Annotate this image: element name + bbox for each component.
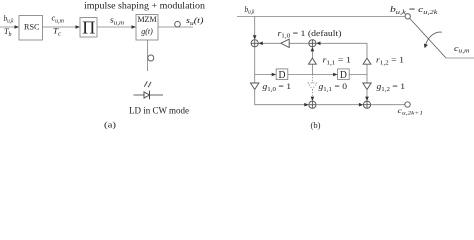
laser emission arrows: [144, 81, 147, 86]
arrowhead into MZM: [132, 25, 137, 29]
wire X4 to output node: [371, 104, 405, 106]
arrowhead into adder2 right: [316, 42, 321, 46]
box RSC: [19, 16, 43, 41]
wire top b line: [237, 16, 405, 18]
wire X1 down to register row: [254, 47, 256, 75]
svg-text:(a): (a): [104, 120, 116, 130]
wire g11 dotted into X3: [311, 90, 313, 99]
arrowhead into D1: [272, 73, 277, 77]
flipflop D2: [338, 69, 350, 80]
gain triangle r_1,0: [281, 39, 289, 47]
gain triangle g_1,2: [363, 83, 371, 90]
svg-text:impulse shaping + modulation: impulse shaping + modulation: [84, 1, 205, 11]
arrowhead into RSC: [15, 25, 20, 29]
adder X1: [251, 40, 258, 47]
wire r10 to X1: [260, 42, 281, 44]
arrowhead into adder4 top: [365, 97, 369, 102]
svg-text:LD in CW mode: LD in CW mode: [129, 107, 189, 117]
wire g10 tap down: [254, 75, 256, 84]
arrowhead into adder4 left: [359, 103, 364, 107]
wire r11 tap up: [311, 64, 313, 74]
svg-text:MZM: MZM: [137, 15, 156, 24]
wire input to RSC: [0, 26, 17, 28]
arrowhead into adder1 right: [258, 42, 263, 46]
node bottom right: [405, 102, 410, 107]
gain triangle r_1,2: [363, 58, 371, 64]
wire MZM bottom port: [147, 40, 149, 71]
svg-text:D: D: [279, 70, 286, 81]
connector circle bottom port: [148, 55, 154, 61]
box PI impulse shaper: [80, 18, 97, 38]
adder X4: [363, 101, 370, 108]
arrowhead into adder3 top: [311, 97, 315, 102]
wire g12 into X4: [366, 90, 368, 100]
connector circle output port: [175, 21, 181, 27]
gain triangle r_1,1: [309, 58, 317, 64]
wire switch arm diagonal: [410, 18, 446, 58]
wire switch output: [446, 57, 474, 59]
box MZM: [136, 15, 158, 41]
wire input drop to adder1: [254, 17, 256, 38]
svg-text:RSC: RSC: [24, 22, 40, 32]
arrowhead into D2: [333, 73, 338, 77]
wire to D1: [255, 74, 274, 76]
gain triangle g_1,1 dotted: [308, 83, 316, 90]
adder X3: [309, 101, 316, 108]
wire g12 tap down: [366, 75, 368, 84]
wire X2 to r10 triangle: [289, 42, 309, 44]
arrowhead into adder3 left: [304, 103, 309, 107]
wire r11 into X2: [311, 49, 313, 58]
arrowhead into adder2 bottom: [311, 47, 315, 52]
wire D2 to column3: [349, 74, 367, 76]
gain triangle g_1,0: [251, 83, 259, 90]
wire g11 dotted tap: [311, 75, 313, 84]
wire r12 up to feedback row: [366, 43, 368, 58]
wire g10 down to bottom row: [255, 90, 307, 105]
flipflop D1: [276, 69, 288, 80]
wire D1 to D2: [288, 74, 335, 76]
wire X3 to X4: [316, 104, 361, 106]
laser diode LD: [134, 94, 145, 96]
arrowhead switch arc: [424, 44, 428, 49]
wire RSC to PI: [43, 26, 78, 28]
switch arc arrow: [425, 32, 441, 45]
wire MZM output: [158, 26, 193, 28]
wire PI to MZM: [97, 26, 134, 28]
arrowhead into adder1 top: [253, 35, 257, 40]
svg-text:(b): (b): [311, 120, 321, 130]
wire feedback row: [318, 42, 367, 44]
arrowhead into PI: [76, 25, 81, 29]
adder X2: [309, 40, 316, 47]
svg-text:g(t): g(t): [141, 27, 153, 36]
svg-text:Π: Π: [82, 17, 95, 37]
svg-text:D: D: [340, 70, 347, 81]
node top right: [405, 14, 410, 19]
wire r12 tap up: [366, 64, 368, 74]
